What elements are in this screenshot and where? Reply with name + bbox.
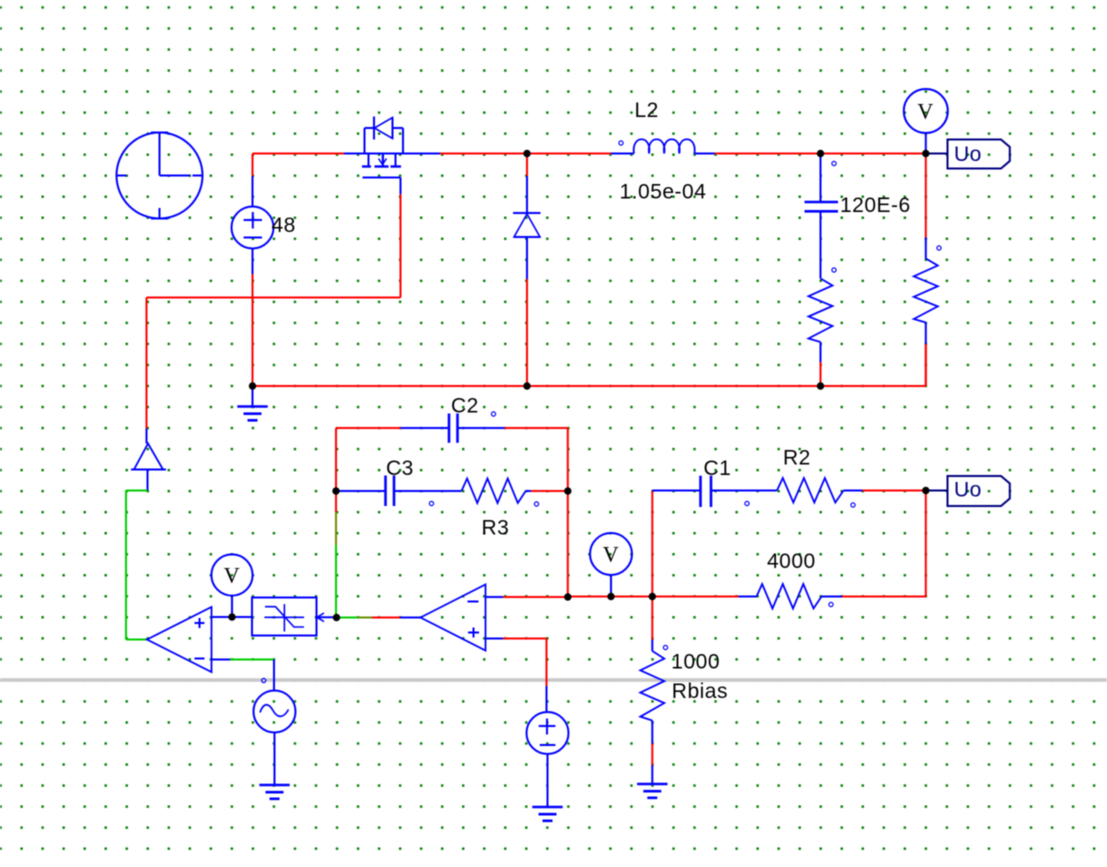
svg-text:Rbias: Rbias: [672, 680, 728, 703]
svg-text:C2: C2: [451, 394, 479, 417]
svg-text:L2: L2: [635, 99, 659, 122]
svg-text:R3: R3: [482, 517, 510, 540]
svg-text:Uo: Uo: [954, 479, 982, 502]
svg-text:R2: R2: [783, 446, 811, 469]
svg-text:1.05e-04: 1.05e-04: [620, 181, 707, 204]
svg-text:C3: C3: [386, 457, 414, 480]
svg-text:1000: 1000: [671, 650, 720, 673]
svg-text:V: V: [603, 542, 619, 567]
svg-text:V: V: [224, 562, 240, 587]
svg-text:120E-6: 120E-6: [840, 194, 911, 217]
svg-text:C1: C1: [704, 457, 732, 480]
svg-text:4000: 4000: [767, 550, 816, 573]
svg-text:V: V: [917, 99, 933, 124]
svg-text:Uo: Uo: [954, 143, 982, 166]
svg-text:48: 48: [272, 214, 296, 237]
